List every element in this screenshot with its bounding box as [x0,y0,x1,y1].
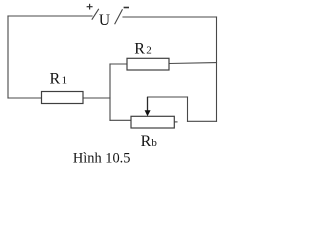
wire junction to R2 left [110,63,127,65]
wire left vertical side [7,16,9,98]
source U terminal slash right [115,9,123,24]
wire right vertical rail [216,17,218,121]
wire R1 to junction node [83,97,110,99]
label - polarity [124,7,129,9]
source U terminal slash left [92,9,99,20]
svg-text:R: R [141,133,152,150]
wire R2 right to right rail [169,62,217,65]
svg-text:b: b [151,137,157,149]
svg-text:1: 1 [62,75,68,87]
resistor R1 [42,92,84,104]
svg-text:R: R [134,40,145,57]
wire junction vertical (node between R1, R2, Rb) [109,64,111,120]
svg-text:R: R [50,71,61,88]
wire top-left from source + terminal to top-left corner [8,15,92,17]
wire junction to Rb left [110,119,131,121]
svg-text:2: 2 [146,44,152,56]
rheostat Rb [131,116,174,128]
svg-text:Hình 10.5: Hình 10.5 [73,151,131,167]
wire wiper horizontal [148,96,188,98]
wiper arrow of Rb [145,97,151,116]
wire top-right from source - terminal to corner [123,16,217,18]
label + polarity [87,4,93,10]
resistor R2 [127,58,169,70]
wire bottom-left to R1 [8,97,42,99]
wire wiper vertical drop [187,97,189,121]
wire stub at Rb right terminal [175,121,178,123]
wire bottom-right horizontal to right rail [188,120,217,122]
svg-text:U: U [99,12,110,29]
